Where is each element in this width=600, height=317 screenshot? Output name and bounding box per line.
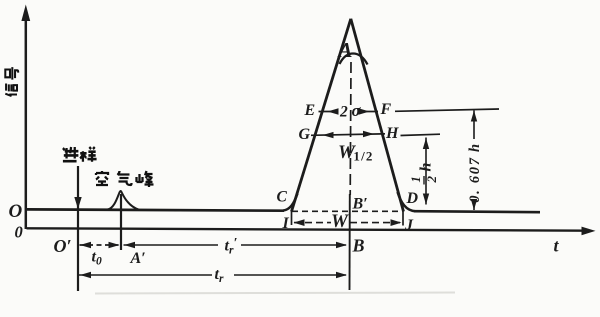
svg-text:1: 1 <box>409 176 423 182</box>
svg-text:A: A <box>337 38 353 62</box>
svg-text:W: W <box>331 211 349 232</box>
svg-text:G: G <box>299 126 311 143</box>
I and J ticks <box>291 210 293 226</box>
svg-text:O′: O′ <box>54 236 72 256</box>
svg-text:C: C <box>277 189 288 206</box>
injection label 进样 <box>63 147 97 162</box>
svg-text:2: 2 <box>424 176 439 184</box>
faint scan streak <box>95 293 455 294</box>
air peak marker line (A' line) <box>120 194 122 250</box>
baseline left of main peak <box>27 209 284 210</box>
air peak curve <box>108 191 140 210</box>
样 <box>80 147 96 162</box>
svg-text:F: F <box>380 101 392 118</box>
svg-text:h: h <box>418 163 435 172</box>
svg-text:H: H <box>385 125 399 142</box>
W dimension at base <box>294 222 331 224</box>
dashed baseline under peak (I-J) <box>292 210 402 212</box>
气 <box>118 171 132 185</box>
baseline right of main peak <box>414 211 540 212</box>
t0 dimension arrows <box>80 244 120 246</box>
号 <box>5 67 18 79</box>
air peak label 空气峰 <box>96 171 154 187</box>
h/2 dimension <box>425 138 427 205</box>
tr dimension <box>79 274 212 276</box>
label 信号 (signal) rotated <box>5 67 18 96</box>
label 1/2 h rotated fraction <box>409 163 439 185</box>
进 <box>63 147 78 161</box>
svg-text:D: D <box>406 190 419 207</box>
svg-text:0. 607 h: 0. 607 h <box>467 142 483 203</box>
main peak: left tangent side <box>292 19 351 212</box>
空 <box>96 171 108 185</box>
center dashed line <box>349 62 352 195</box>
F extension line <box>395 109 499 111</box>
svg-text:E: E <box>304 102 316 119</box>
svg-text:B′: B′ <box>352 196 368 213</box>
svg-text:2: 2 <box>339 104 348 121</box>
peak top arc (true curve summit) <box>340 54 368 65</box>
injection marker line with down arrow <box>77 166 79 291</box>
svg-text:I: I <box>282 215 290 232</box>
svg-text:O: O <box>9 201 23 222</box>
peak bottom-right curve <box>398 192 416 211</box>
tr' dimension <box>124 244 219 246</box>
x-axis (time axis) <box>27 228 590 230</box>
svg-text:A′: A′ <box>130 250 146 267</box>
peak bottom-left curve <box>283 194 298 211</box>
峰 <box>137 171 154 187</box>
0.607h dimension <box>473 111 475 140</box>
svg-text:B: B <box>352 236 365 256</box>
y-axis (signal axis) <box>25 14 28 229</box>
B vertical line (center line below baseline) <box>349 194 351 290</box>
H extension line <box>401 134 441 135</box>
svg-text:0: 0 <box>15 223 23 242</box>
信 <box>5 84 17 96</box>
svg-text:J: J <box>404 217 414 234</box>
main peak: right tangent side <box>351 19 404 212</box>
